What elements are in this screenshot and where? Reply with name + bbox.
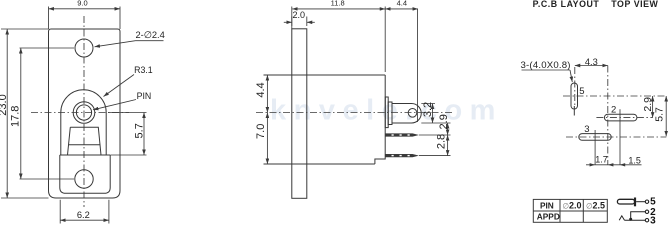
svg-text:2.9: 2.9: [642, 97, 654, 112]
svg-text:3: 3: [584, 124, 589, 135]
svg-text:∅2.0: ∅2.0: [563, 201, 582, 211]
svg-text:3-(4.0X0.8): 3-(4.0X0.8): [521, 60, 571, 71]
svg-text:5.7: 5.7: [133, 123, 145, 138]
svg-text:5: 5: [579, 86, 584, 97]
svg-text:23.0: 23.0: [0, 94, 9, 115]
svg-text:P.C.B LAYOUT TOP VIEW: P.C.B LAYOUT TOP VIEW: [533, 0, 659, 9]
svg-text:3.2: 3.2: [422, 102, 434, 117]
svg-text:1.7: 1.7: [595, 155, 608, 165]
svg-text:PIN: PIN: [540, 200, 554, 210]
svg-text:4.4: 4.4: [255, 82, 267, 97]
svg-text:PIN: PIN: [137, 91, 152, 101]
svg-text:11.8: 11.8: [331, 0, 345, 8]
svg-text:knvele.com: knvele.com: [270, 95, 503, 127]
svg-text:2-∅2.4: 2-∅2.4: [136, 30, 165, 40]
svg-text:5.7: 5.7: [654, 107, 666, 122]
svg-text:4.3: 4.3: [585, 57, 598, 67]
svg-text:2: 2: [611, 104, 616, 115]
svg-text:4.4: 4.4: [397, 0, 407, 8]
svg-text:2.9: 2.9: [438, 114, 450, 129]
svg-text:3: 3: [650, 215, 656, 225]
svg-text:∅2.5: ∅2.5: [586, 201, 605, 211]
svg-text:9.0: 9.0: [77, 0, 87, 8]
svg-text:2.0: 2.0: [293, 10, 306, 20]
svg-text:APPD: APPD: [537, 212, 560, 222]
svg-text:7.0: 7.0: [255, 124, 267, 139]
svg-text:17.8: 17.8: [9, 106, 21, 127]
svg-text:2.8: 2.8: [436, 134, 448, 149]
svg-text:6.2: 6.2: [77, 210, 90, 220]
svg-text:1.5: 1.5: [628, 155, 641, 165]
svg-text:R3.1: R3.1: [134, 65, 153, 75]
